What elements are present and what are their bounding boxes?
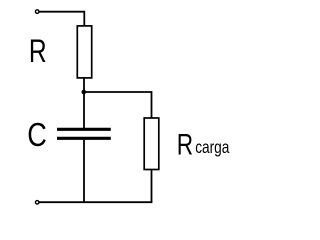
svg-text:C: C [27, 118, 47, 154]
svg-text:carga: carga [195, 139, 229, 158]
svg-text:R: R [177, 127, 193, 161]
svg-text:R: R [29, 34, 47, 70]
